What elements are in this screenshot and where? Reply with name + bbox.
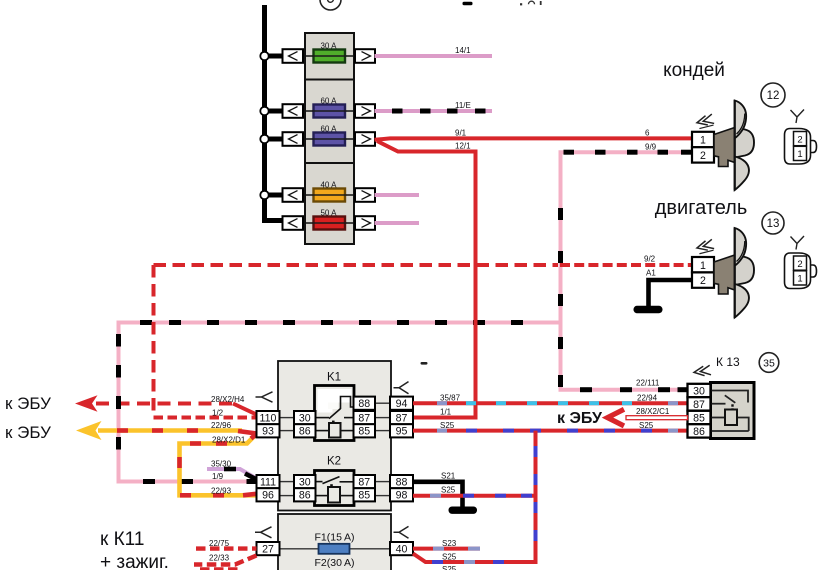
fan 12 connector pin 2	[692, 147, 714, 162]
power bus (black) feeding fuse box	[262, 5, 284, 221]
K1 pin 95	[390, 424, 413, 437]
svg-text:2: 2	[797, 134, 802, 145]
svg-text:22/111: 22/111	[636, 379, 660, 388]
clipped circled-number symbol at top	[320, 0, 341, 10]
svg-text:+ зажиг.: + зажиг.	[100, 552, 169, 570]
K1 pin 110	[257, 411, 280, 424]
svg-text:22/75: 22/75	[209, 539, 230, 548]
svg-text:30: 30	[299, 476, 311, 488]
fork symbol above plug 12	[791, 110, 805, 124]
wire 12/1 (red) from fuse F60A-2 down to relay K1 pin 87 (label 1/1)	[377, 141, 476, 418]
svg-text:87: 87	[693, 399, 705, 411]
relay K13 coil	[725, 410, 737, 426]
svg-text:110: 110	[260, 412, 277, 424]
K2 pin 86	[294, 488, 316, 501]
connector chevron above fan 13 pins	[696, 239, 715, 254]
K2 pin 96	[257, 488, 280, 501]
svg-text:2: 2	[700, 275, 706, 287]
svg-text:2: 2	[797, 259, 802, 270]
svg-text:87: 87	[358, 476, 370, 488]
wire S23 (red-slate) from fuse panel pin 40	[413, 539, 480, 549]
K2 pin 88 (outer)	[390, 475, 413, 488]
callout circle 13	[762, 212, 784, 234]
svg-text:12/1: 12/1	[455, 142, 471, 151]
fan 12 connector pin 1	[692, 132, 714, 147]
wire stub (pink) from fuse F40A output	[375, 193, 420, 197]
svg-text:14/1: 14/1	[455, 46, 471, 55]
arrow to ECU (red)	[75, 395, 98, 411]
mating plug symbol for fan 13	[785, 253, 817, 289]
fan motor 13 (двигатель) icon	[714, 228, 754, 319]
K13 pin 87	[688, 397, 711, 411]
svg-text:22/93: 22/93	[211, 487, 232, 496]
wire 22/33 (red-white stripe) into fuse panel pin 27	[194, 554, 257, 565]
bus junction nodes (circles)	[260, 52, 268, 199]
svg-text:A1: A1	[646, 269, 656, 278]
wire branch (pink-black stripe) to relay K2 pin 111 (label 1/9)	[119, 323, 561, 482]
svg-text:1: 1	[700, 260, 706, 272]
svg-text:30: 30	[299, 412, 311, 424]
svg-text:11/E: 11/E	[455, 101, 471, 110]
fan 13 connector pin 1	[692, 257, 714, 272]
svg-text:S25: S25	[639, 421, 654, 430]
svg-text:к ЭБУ: к ЭБУ	[5, 423, 51, 442]
svg-text:35/30: 35/30	[211, 460, 232, 469]
svg-text:95: 95	[396, 426, 408, 438]
svg-text:1/2: 1/2	[212, 409, 224, 418]
fuse link line 27-40	[280, 548, 391, 550]
callout circle 12	[761, 83, 785, 107]
svg-text:9/9: 9/9	[645, 143, 657, 152]
wire 22/96 (yellow, red stripe) from ECU arrow to K1 pin 93	[98, 421, 257, 434]
K13 pin 30	[688, 384, 711, 398]
wire 28/X2/H4 (red dashed) to ECU arrow, into K1 pin 110	[96, 395, 257, 415]
svg-text:к К11: к К11	[100, 529, 144, 550]
svg-text:К 13: К 13	[716, 355, 740, 369]
wire 35/30 (lavender) stub into K2 pin 111	[207, 460, 257, 480]
wire S21 (black) K2 pin 88 to ground	[413, 472, 463, 508]
arrow to ECU (red, right side)	[608, 409, 625, 426]
svg-text:28/X2/D1: 28/X2/D1	[212, 436, 246, 445]
K1 pin 94	[390, 397, 413, 410]
fuse section panel (F1/F2)	[278, 514, 391, 570]
fuse F 50A row: left connector, fuse element, right connector	[283, 208, 376, 229]
fuse box body	[305, 33, 354, 244]
clipped black dash fragment at top	[463, 2, 473, 5]
svg-text:86: 86	[299, 490, 311, 502]
svg-text:85: 85	[358, 490, 370, 502]
fuse F 40A row: left connector, fuse element, right connector	[283, 180, 376, 201]
svg-text:9/1: 9/1	[455, 129, 467, 138]
relay K2 coil	[328, 487, 340, 503]
svg-text:S25: S25	[440, 421, 455, 430]
fan 13 connector pin 2	[692, 272, 714, 287]
connector fork symbol (fuse section right)	[394, 526, 409, 538]
wire 9/1 / 6 (red) from fuse F60A-2 to fan motor 12 pin 1	[375, 129, 693, 140]
K1 pin 30	[294, 411, 316, 424]
svg-text:87: 87	[396, 412, 408, 424]
svg-text:кондей: кондей	[663, 60, 725, 81]
K13 pin 86	[688, 424, 711, 438]
svg-text:6: 6	[645, 129, 650, 138]
svg-text:60 A: 60 A	[320, 96, 337, 105]
svg-text:к ЭБУ: к ЭБУ	[557, 410, 603, 427]
svg-text:85: 85	[358, 426, 370, 438]
K1 pin 86	[294, 424, 316, 437]
fuse F 60A-2 row: left connector, fuse element, right connector	[283, 124, 376, 145]
svg-text:22/96: 22/96	[211, 421, 232, 430]
K2 pin 111	[257, 475, 280, 488]
connector chevron above fan 12 pins	[696, 114, 715, 129]
svg-text:86: 86	[693, 426, 705, 438]
svg-text:40: 40	[396, 543, 408, 555]
relay K13 body	[711, 383, 755, 439]
K13 pin 85	[688, 411, 711, 425]
clipped small marks at top right	[520, 1, 542, 5]
connector fork symbol (panel top-left)	[256, 392, 273, 402]
relay K2 body	[315, 471, 355, 506]
K2 pin 85	[354, 488, 376, 501]
wire 28/X2/D1 + 22/93 (yellow, red stripe) jumper K1 pin 93 to K2 pin 96	[180, 434, 258, 496]
wire 9/9 / 22/111 (pink-black stripe): fan 12 pin 2 to relay K13 pin 30	[561, 143, 693, 390]
svg-text:S25: S25	[442, 565, 457, 570]
relay K2 inter-pin connection lines	[280, 482, 391, 496]
relay K1 body	[315, 386, 355, 441]
svg-text:40 A: 40 A	[320, 180, 337, 189]
svg-text:94: 94	[396, 398, 408, 410]
svg-text:1: 1	[797, 274, 802, 285]
svg-text:60 A: 60 A	[320, 124, 337, 133]
svg-text:85: 85	[693, 412, 705, 424]
svg-text:S25: S25	[441, 486, 456, 495]
svg-text:9/2: 9/2	[644, 255, 656, 264]
svg-text:22/94: 22/94	[637, 394, 658, 403]
svg-text:93: 93	[262, 426, 274, 438]
wire 22/75 (red-white stripe) into fuse panel pin 27	[196, 539, 257, 549]
svg-text:98: 98	[396, 490, 408, 502]
svg-text:S21: S21	[441, 472, 456, 481]
svg-text:50 A: 50 A	[320, 208, 337, 217]
svg-text:S23: S23	[442, 539, 457, 548]
fan motor 12 (кондей) icon	[714, 100, 754, 191]
wire 11/E (pink with black stripe) from fuse F60A-1 output	[375, 101, 493, 111]
svg-text:K1: K1	[327, 372, 341, 384]
relay mounting panel (grey)	[278, 361, 391, 511]
connector fork symbol (panel top-right)	[394, 382, 409, 394]
fuse panel pin 40	[390, 542, 413, 555]
ground symbol (S21)	[449, 507, 478, 514]
svg-text:27: 27	[262, 543, 274, 555]
svg-text:88: 88	[396, 476, 408, 488]
K2 pin 87	[354, 475, 376, 488]
clipped black dash fragment above panel	[421, 362, 428, 365]
mating plug symbol for fan 12	[785, 129, 817, 165]
svg-text:12: 12	[767, 90, 780, 102]
wire 28/X2/C1 (white-red) K13 pin 85 to ECU arrow	[626, 407, 688, 420]
svg-text:28/X2/H4: 28/X2/H4	[211, 395, 245, 404]
fuse F 60A-1 row: left connector, fuse element, right connector	[283, 96, 376, 117]
wire (red dashed) vertical riser x=153	[152, 265, 156, 416]
K1 pin 93	[257, 424, 280, 437]
wire crossing overlays (z-order)	[474, 314, 478, 331]
connector chevron above K13	[693, 365, 711, 377]
svg-text:86: 86	[299, 426, 311, 438]
arrow to ECU (yellow)	[76, 421, 102, 440]
relay K1 inter-pin connection lines	[280, 403, 391, 430]
svg-text:S25: S25	[442, 553, 457, 562]
svg-text:K2: K2	[327, 456, 341, 468]
svg-text:88: 88	[358, 398, 370, 410]
wire S25 (red-blue) K2 pin 98 to riser junction	[413, 486, 536, 496]
wire S25 (red-blue) K1 pin 95 to K13 pin 86	[413, 421, 688, 431]
svg-text:96: 96	[262, 490, 274, 502]
wire 35/87 / 22/94 (red-cyan) K1 pin 94 to K13 pin 87	[413, 394, 688, 404]
fuse F1 element (blue)	[319, 544, 350, 554]
svg-text:двигатель: двигатель	[655, 197, 748, 219]
svg-text:22/33: 22/33	[209, 554, 230, 563]
wire 1/2 (red-white stripe) into K1 pin 110	[154, 409, 257, 418]
svg-text:к ЭБУ: к ЭБУ	[5, 394, 51, 413]
svg-text:2: 2	[700, 150, 706, 162]
svg-text:1: 1	[797, 149, 802, 160]
svg-text:F1(15 A): F1(15 A)	[314, 532, 354, 544]
wire A1 (black) fan 13 pin 2 to ground	[646, 269, 692, 307]
ground symbol (A1)	[634, 306, 663, 313]
K2 pin 30	[294, 475, 316, 488]
svg-text:35: 35	[763, 357, 775, 369]
svg-text:28/X2/C1: 28/X2/C1	[636, 407, 670, 416]
K1 pin 87 (inner)	[354, 411, 376, 424]
svg-text:87: 87	[358, 412, 370, 424]
svg-text:13: 13	[767, 218, 780, 230]
relay K1 coil	[329, 423, 341, 438]
svg-text:111: 111	[260, 476, 276, 488]
svg-text:1/9: 1/9	[212, 472, 224, 481]
svg-text:30: 30	[693, 385, 705, 397]
callout circle 35	[759, 353, 779, 373]
fuse F 30A row: left connector, fuse element, right connector	[283, 41, 376, 62]
wire 9/2 (red dashed): horizontal bus to fan motor 13 pin 1	[154, 255, 693, 266]
svg-text:30 A: 30 A	[320, 41, 337, 50]
svg-text:F2(30 A): F2(30 A)	[314, 557, 354, 569]
connector fork symbol (fuse section left)	[255, 527, 272, 538]
svg-text:35/87: 35/87	[440, 394, 461, 403]
clipped wire fragment at bottom edge	[200, 567, 240, 570]
K2 pin 98 (outer)	[390, 488, 413, 501]
K1 pin 85	[354, 424, 376, 437]
svg-text:1: 1	[700, 135, 706, 147]
fork symbol above plug 13	[791, 236, 805, 250]
wire 14/1 (pink) from fuse F30A output	[375, 46, 493, 56]
K1 pin 88	[354, 397, 376, 410]
wire stub (pink) from fuse F50A output	[375, 221, 420, 225]
svg-text:1/1: 1/1	[440, 408, 452, 417]
fuse panel pin 27	[257, 542, 280, 555]
K1 pin 87 (outer)	[390, 411, 413, 424]
wire S25 vertical riser (red-blue)	[413, 431, 536, 562]
